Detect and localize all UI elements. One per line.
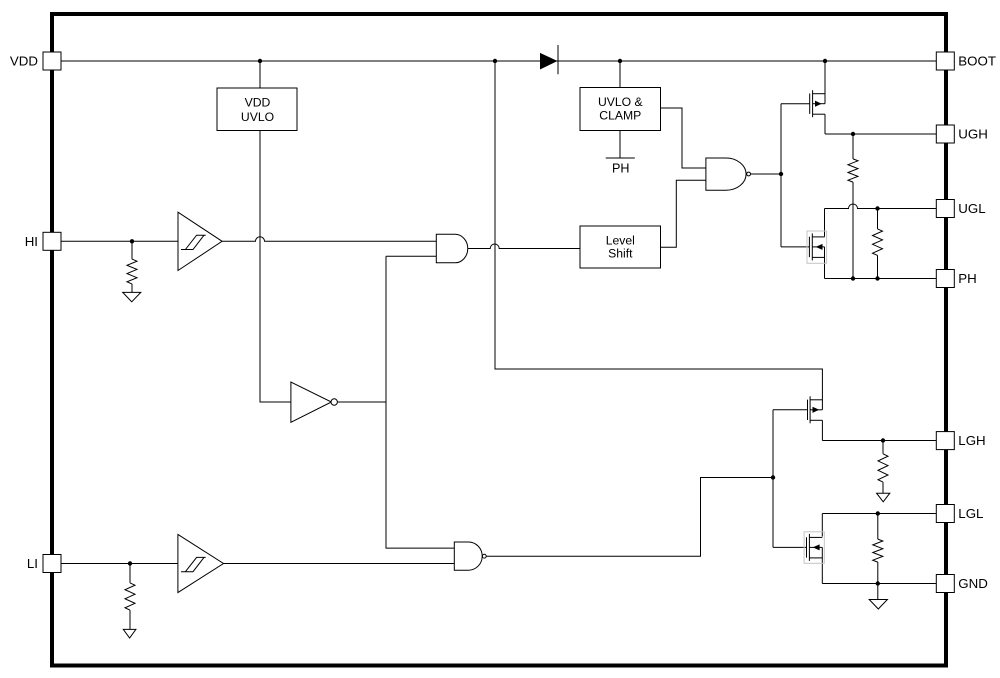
ground (GND rail) <box>869 600 887 610</box>
ground (LGH pulldown) <box>877 493 890 502</box>
node LGH resistor tap <box>881 438 885 442</box>
block Level Shift <box>580 226 661 268</box>
wire HI Schmitt output to AND input A (hop over x=260) <box>222 237 436 242</box>
ground (HI pulldown) <box>123 292 141 301</box>
node LGL resistor tap <box>876 511 880 515</box>
wire resistor R4 stems (LGL to GND) <box>877 514 879 584</box>
transistor Q4 (LGL-GND clamp FET) <box>804 532 824 564</box>
svg-text:LI: LI <box>27 556 38 571</box>
resistor R5 (HI pulldown) zigzag <box>127 259 137 284</box>
pin LGL <box>936 505 983 523</box>
wire Level Shift output to NAND input B <box>660 180 706 247</box>
wire Q2 body/source to PH rail <box>824 247 826 279</box>
block UVLO & CLAMP <box>580 88 661 131</box>
wire resistor R2 stems (UGL to PH) <box>877 209 879 279</box>
wire BOOT drop to Q1 drain/body <box>824 61 826 104</box>
wire resistor R5 stems (HI pulldown) <box>131 241 133 292</box>
and-gate U4 <box>436 234 467 262</box>
wire UVLO &amp; CLAMP to PH reference <box>619 130 621 158</box>
wire LGH rail <box>822 440 936 442</box>
ground (LI pulldown) <box>123 629 136 638</box>
wire NAND2 output to low-side gate rail <box>486 478 773 557</box>
svg-text:PH: PH <box>612 161 630 175</box>
node UGH resistor tap <box>851 132 855 136</box>
wire GND symbol stem <box>877 584 879 600</box>
wire inverter output <box>337 401 386 403</box>
pin HI <box>25 232 61 250</box>
wire HI pin to Schmitt input <box>61 240 178 242</box>
wire Q4 drain to LGL rail <box>821 514 823 537</box>
pin UGL <box>936 200 985 218</box>
svg-text:LGH: LGH <box>958 433 985 448</box>
wire AND output to Level Shift (hop over x=495) <box>468 244 580 249</box>
wire UVLO output down to inverter input <box>260 130 291 402</box>
pin UGH <box>936 125 988 143</box>
resistor R2 (UGL-PH) zigzag <box>873 229 883 256</box>
nand-gate U5 (high side) <box>706 158 751 190</box>
buffer U1 (HI Schmitt trigger) <box>178 212 222 270</box>
pin BOOT <box>936 52 996 70</box>
pin LGH <box>936 432 985 450</box>
node HI pulldown tap <box>130 239 134 243</box>
wire Q2 drain to UGL rail <box>824 209 826 237</box>
svg-text:PH: PH <box>958 271 976 286</box>
resistor R6 (LI pulldown) zigzag <box>125 583 135 610</box>
pin PH <box>936 270 976 288</box>
node LI pulldown tap <box>128 561 132 565</box>
wire GND rail <box>822 583 936 585</box>
node PH reference bar and label <box>606 158 635 175</box>
wire UVLO &amp; CLAMP feed (x=620) <box>619 61 621 88</box>
wire UGH rail <box>825 133 936 135</box>
resistor R3 (LGH pulldown) zigzag <box>878 454 888 482</box>
svg-text:GND: GND <box>958 576 988 591</box>
block VDD UVLO <box>217 88 297 131</box>
diode D1 (boot diode) <box>540 45 558 74</box>
node VDD branch tap <box>493 59 497 63</box>
transistor Q1 (boot/high-side driver FET) <box>810 90 825 117</box>
wire inverter branch vertical (x=386) <box>386 256 454 548</box>
svg-text:Level: Level <box>606 233 635 247</box>
node BOOT diode cathode tap <box>618 59 622 63</box>
wire LGL rail <box>822 513 936 515</box>
wire VDD rail (y=61) <box>61 60 936 62</box>
svg-text:UVLO &: UVLO & <box>598 95 643 109</box>
wire UVLO &amp; CLAMP output to NAND input A <box>660 108 706 168</box>
svg-text:UGH: UGH <box>958 127 988 142</box>
node GND resistor tap <box>876 581 880 585</box>
buffer U2 (LI Schmitt trigger) <box>178 534 224 592</box>
pin LI <box>27 555 61 573</box>
wire VDD UVLO feed (x=260) <box>259 61 261 88</box>
node NAND output junction <box>779 172 783 176</box>
node VDD-UVLO tap <box>258 59 262 63</box>
wire LI pin to Schmitt input <box>61 563 178 565</box>
svg-text:UGL: UGL <box>958 201 985 216</box>
wire Q3 source to LGH rail <box>821 420 823 440</box>
pin GND <box>936 575 988 593</box>
node UGL resistor tap <box>875 206 879 210</box>
svg-text:LGL: LGL <box>958 506 983 521</box>
resistor R4 (LGL-GND) zigzag <box>873 539 883 562</box>
svg-text:Shift: Shift <box>608 247 633 261</box>
svg-text:VDD: VDD <box>10 54 38 69</box>
node low-side gate junction <box>771 475 775 479</box>
wire high-side gate rail (x=781) <box>781 104 810 247</box>
svg-text:UVLO: UVLO <box>241 110 274 124</box>
inverter U3 <box>291 382 338 422</box>
transistor Q2 (UGH-PH clamp FET) <box>807 231 827 263</box>
nand-gate U6 (low side) <box>454 542 486 570</box>
wire low-side gate rail (x=773) <box>773 410 808 548</box>
node PH resistor tap 1 <box>851 276 855 280</box>
node PH resistor tap 2 <box>875 276 879 280</box>
svg-text:BOOT: BOOT <box>958 54 996 69</box>
wire UGL rail (hop over x=853) <box>825 204 937 209</box>
wire resistor R1 through-line (UGH to PH) <box>852 134 854 279</box>
svg-text:CLAMP: CLAMP <box>599 109 641 123</box>
wire Q4 body/source to GND rail <box>821 547 823 583</box>
node BOOT drop tap <box>823 59 827 63</box>
resistor R1 (UGH-PH) zigzag <box>848 159 858 182</box>
svg-text:HI: HI <box>25 234 38 249</box>
wire VDD branch to low-side driver drain <box>495 61 822 410</box>
transistor Q3 (low-side driver FET) <box>808 396 823 423</box>
wire Q1 source to UGH rail <box>824 114 826 134</box>
wire LI Schmitt output to NAND2 input B <box>224 563 455 565</box>
wire PH rail <box>825 278 937 280</box>
wire resistor R3 stems (LGH to ground) <box>882 441 884 494</box>
pin VDD <box>10 52 61 70</box>
wire NAND output to high-side gate rail <box>751 173 782 175</box>
svg-text:VDD: VDD <box>245 95 271 109</box>
wire resistor R6 stems (LI pulldown) <box>129 564 131 630</box>
